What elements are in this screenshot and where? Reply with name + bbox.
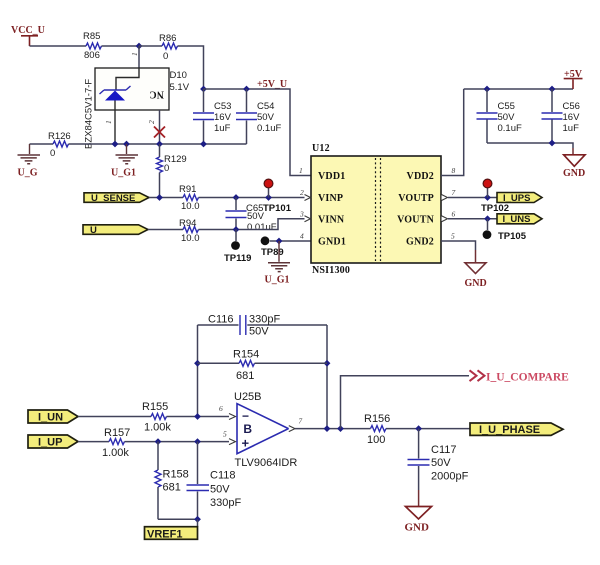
node zener anode junction (112, 141, 119, 148)
capacitor C118 (187, 442, 242, 520)
svg-text:I_UN: I_UN (38, 412, 63, 424)
capacitor C116 (198, 314, 328, 338)
svg-text:50V: 50V (247, 211, 265, 222)
resistor R85 (83, 31, 102, 61)
svg-text:I_U_COMPARE: I_U_COMPARE (486, 372, 569, 384)
arrow I_U_COMPARE chevrons (470, 370, 485, 381)
svg-text:1uF: 1uF (563, 123, 580, 134)
resistor R91 (179, 184, 200, 212)
node R129/NC junction (156, 141, 163, 148)
svg-text:5: 5 (223, 430, 227, 439)
svg-text:VOUTN: VOUTN (397, 215, 434, 226)
ground U_G (18, 144, 41, 179)
svg-text:GND: GND (405, 522, 430, 534)
node C55 top junction (484, 86, 491, 93)
svg-text:C117: C117 (431, 444, 456, 456)
svg-text:R155: R155 (142, 401, 168, 413)
svg-text:330pF: 330pF (249, 314, 280, 326)
diode D10 BZX84C5V1-7-F (84, 52, 190, 149)
svg-text:8: 8 (452, 166, 456, 175)
svg-text:NSI1300: NSI1300 (312, 265, 350, 276)
svg-text:7: 7 (298, 417, 302, 426)
pin 2 input arrow (305, 195, 311, 201)
svg-text:R157: R157 (104, 427, 130, 439)
svg-text:100: 100 (367, 434, 385, 446)
svg-text:4: 4 (300, 232, 304, 241)
port I_UNS (497, 214, 542, 225)
resistor R158 (155, 442, 189, 520)
wire R157 to op-amp (125, 441, 230, 443)
wire R156 to I_U_PHASE (386, 428, 470, 430)
svg-text:7: 7 (452, 188, 456, 197)
svg-text:R86: R86 (159, 33, 176, 44)
svg-text:6: 6 (219, 404, 223, 413)
svg-text:0: 0 (164, 163, 169, 174)
wire U12 pin8 to +5V rail (441, 89, 464, 176)
svg-text:GND: GND (465, 278, 487, 289)
capacitor C56 (542, 89, 581, 143)
svg-text:NC: NC (149, 89, 164, 100)
svg-text:I_UNS: I_UNS (503, 214, 531, 225)
wire R85 to junction (102, 45, 140, 47)
node VREF1 junction (194, 516, 201, 523)
node R154 right junction (324, 360, 331, 367)
node R129 bottom junction (156, 194, 163, 201)
wire op-amp output to R156 (295, 428, 371, 430)
svg-text:VREF1: VREF1 (147, 529, 182, 541)
no-connect X on D10 pin 2 (154, 127, 165, 138)
pin 5 input arrow (op-amp) (229, 439, 236, 445)
capacitor C53 (193, 89, 232, 144)
pin 3 input arrow (305, 216, 311, 222)
node C65 bottom junction (233, 226, 240, 233)
svg-text:3: 3 (299, 210, 304, 219)
node C53 top junction (200, 86, 207, 93)
svg-text:50V: 50V (431, 457, 451, 469)
wire U to R94 (148, 229, 183, 231)
node feedback junction (324, 425, 331, 432)
svg-text:+: + (242, 435, 250, 450)
svg-text:U25B: U25B (234, 391, 262, 403)
svg-text:VINP: VINP (318, 193, 343, 204)
wire I_U_COMPARE branch (341, 376, 470, 429)
svg-text:C56: C56 (563, 101, 580, 112)
wire +5V rail right (464, 88, 573, 90)
svg-text:B: B (243, 422, 252, 436)
port I_U_PHASE (470, 423, 563, 436)
capacitor C117 (408, 429, 469, 506)
resistor R126 (48, 131, 71, 159)
svg-text:2: 2 (147, 120, 156, 124)
pin 6 output arrow (442, 216, 448, 222)
svg-text:10.0: 10.0 (181, 233, 200, 244)
port VREF1 (145, 527, 198, 541)
capacitor C55 (477, 89, 522, 143)
svg-text:VINN: VINN (318, 215, 345, 226)
svg-text:1uF: 1uF (214, 123, 231, 134)
resistor R156 (364, 413, 390, 446)
svg-text:TP119: TP119 (224, 253, 251, 264)
svg-text:TLV9064IDR: TLV9064IDR (235, 457, 298, 469)
wire D10 NC pin to bottom wire (159, 110, 161, 144)
svg-text:GND2: GND2 (406, 237, 434, 248)
port I_UPS (497, 193, 542, 204)
svg-text:BZX84C5V1-7-F: BZX84C5V1-7-F (84, 79, 95, 149)
wire R91 to U12 pin2 (199, 197, 306, 199)
svg-text:1.00k: 1.00k (102, 447, 129, 459)
svg-text:50V: 50V (249, 326, 269, 338)
power VCC_U (11, 25, 45, 46)
testpoint TP105 (483, 219, 527, 242)
resistor R94 (179, 218, 200, 244)
node C53 bottom junction (200, 141, 207, 148)
testpoint TP89 (261, 236, 284, 258)
wire D10 pin1 stub (138, 46, 140, 68)
svg-text:VDD2: VDD2 (407, 171, 434, 182)
svg-text:681: 681 (163, 482, 181, 494)
svg-text:GND: GND (563, 168, 585, 179)
node C56 top junction (549, 86, 556, 93)
wire bottom net main segment (69, 143, 247, 145)
svg-text:1.00k: 1.00k (144, 422, 171, 434)
wire C116 left leg down (197, 325, 199, 417)
pin 6 input arrow (op-amp) (229, 414, 236, 420)
svg-text:U_G: U_G (18, 168, 38, 179)
svg-text:16V: 16V (563, 112, 581, 123)
node compare branch junction (337, 425, 344, 432)
svg-text:R94: R94 (179, 218, 196, 229)
testpoint TP101 (263, 179, 292, 214)
wire +5V_U rail (204, 89, 312, 176)
wire U12 pin7 to I_UPS (448, 197, 497, 199)
svg-text:R126: R126 (48, 131, 71, 142)
svg-text:C53: C53 (214, 101, 231, 112)
svg-text:5.1V: 5.1V (170, 82, 190, 93)
wire VCC_U to R85 (30, 45, 87, 47)
svg-text:R154: R154 (233, 349, 259, 361)
node inverting input junction (194, 413, 201, 420)
wire U12 pin6 to I_UNS (448, 218, 497, 220)
wire R94 to U12 pin3 (199, 219, 306, 230)
pin 7 output arrow (442, 195, 448, 201)
wire zener anode to bottom wire (114, 101, 116, 145)
svg-text:TP101: TP101 (263, 203, 292, 214)
wire bottom net left segment (30, 143, 54, 145)
wire R158/C118 bottom rail (158, 518, 198, 520)
svg-text:50V: 50V (257, 112, 275, 123)
svg-text:50V: 50V (498, 112, 516, 123)
testpoint TP102 (481, 179, 509, 214)
node C117 junction (415, 425, 422, 432)
node C65 top junction (233, 194, 240, 201)
svg-text:0.1uF: 0.1uF (257, 123, 281, 134)
node ground stub junction (123, 141, 130, 148)
svg-text:GND1: GND1 (318, 237, 346, 248)
port I_UN (28, 410, 78, 424)
svg-text:681: 681 (236, 370, 254, 382)
svg-text:16V: 16V (214, 112, 232, 123)
ground U_G1 (under TP89) (265, 241, 291, 286)
wire R155 to op-amp (167, 416, 230, 418)
wire I_UP to R157 (78, 441, 109, 443)
node R158 top junction (155, 438, 162, 445)
svg-text:R158: R158 (163, 469, 189, 481)
svg-text:U12: U12 (312, 143, 330, 154)
svg-text:R85: R85 (83, 31, 100, 42)
svg-text:1: 1 (299, 166, 303, 175)
svg-text:1: 1 (104, 120, 113, 124)
svg-text:1: 1 (130, 52, 139, 56)
ground GND (top right) (563, 155, 585, 179)
port U (83, 225, 148, 236)
node TP105 junction (484, 215, 491, 222)
resistor R157 (102, 427, 130, 459)
svg-text:U_G1: U_G1 (265, 275, 290, 286)
node R154 left junction (194, 360, 201, 367)
node C118 top junction (194, 438, 201, 445)
ground GND (C117) (405, 507, 432, 534)
resistor R129 (157, 144, 187, 198)
svg-text:−: − (242, 409, 249, 423)
wire VREF1 stub (197, 519, 199, 526)
svg-text:C54: C54 (257, 101, 274, 112)
svg-text:I_UPS: I_UPS (503, 193, 530, 204)
svg-text:6: 6 (452, 210, 456, 219)
svg-text:R91: R91 (179, 184, 196, 195)
power +5V (564, 69, 583, 89)
wire R86 to +5V_U rail (178, 46, 204, 89)
wire C116 right leg down (326, 325, 328, 429)
svg-text:I_UP: I_UP (38, 437, 62, 449)
wire junction to R86 (139, 45, 162, 47)
svg-text:U: U (90, 225, 97, 236)
svg-text:TP105: TP105 (498, 231, 527, 242)
node junction R85/R86/D10 (136, 43, 143, 50)
ground GND (U12 pin5) (465, 263, 487, 289)
svg-text:C55: C55 (498, 101, 515, 112)
node TP101 junction (265, 194, 272, 201)
svg-text:VDD1: VDD1 (318, 171, 345, 182)
capacitor C65 (226, 198, 277, 234)
wire U12 pin5 to GND (441, 241, 476, 250)
svg-text:TP102: TP102 (481, 203, 509, 214)
svg-text:806: 806 (84, 50, 100, 61)
svg-text:10.0: 10.0 (181, 201, 200, 212)
svg-text:C118: C118 (210, 470, 235, 482)
wire I_UN to R155 (78, 416, 151, 418)
resistor R154 (198, 349, 328, 383)
resistor R86 (159, 33, 178, 62)
capacitor C54 (236, 89, 281, 144)
svg-text:U_SENSE: U_SENSE (91, 193, 135, 204)
pin 7 output arrow (op-amp) (289, 426, 295, 432)
svg-text:TP89: TP89 (261, 247, 284, 258)
svg-text:I_U_PHASE: I_U_PHASE (479, 424, 540, 436)
svg-text:U_G1: U_G1 (111, 168, 136, 179)
svg-text:0.1uF: 0.1uF (498, 123, 522, 134)
svg-text:50V: 50V (210, 484, 230, 496)
node C56 bottom junction (549, 140, 556, 147)
node GND1 junction (276, 238, 283, 245)
svg-text:R156: R156 (364, 413, 390, 425)
op-amp U12 chip body (311, 143, 441, 276)
resistor R155 (142, 401, 171, 434)
svg-text:0: 0 (163, 51, 168, 62)
op-amp U25B (234, 391, 297, 469)
svg-text:VCC_U: VCC_U (11, 25, 45, 36)
svg-text:2: 2 (300, 188, 304, 197)
testpoint TP119 (224, 230, 251, 265)
wire U_SENSE to R91 (149, 197, 183, 199)
node C54 top junction (243, 86, 250, 93)
wire TP89 to U12 pin4 (270, 240, 311, 242)
svg-text:VOUTP: VOUTP (398, 193, 434, 204)
svg-text:0: 0 (50, 148, 55, 159)
node TP102 junction (484, 194, 491, 201)
port U_SENSE (84, 193, 149, 204)
port I_UP (28, 435, 78, 449)
svg-text:C116: C116 (208, 314, 233, 326)
wire caps bottom rail (487, 143, 573, 148)
svg-text:2000pF: 2000pF (431, 471, 469, 483)
ground U_G1 (under D10) (111, 144, 138, 179)
svg-text:330pF: 330pF (210, 497, 241, 509)
svg-text:0.01uF: 0.01uF (247, 222, 277, 233)
svg-text:D10: D10 (170, 70, 187, 81)
svg-text:5: 5 (451, 232, 455, 241)
